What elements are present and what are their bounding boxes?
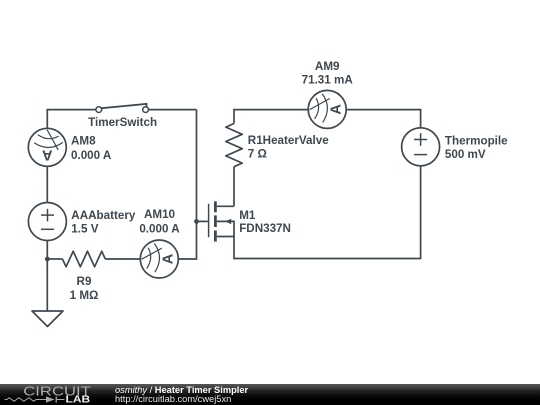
ammeter AM8 bbox=[28, 128, 66, 166]
svg-text:7 Ω: 7 Ω bbox=[248, 148, 267, 161]
wire ground drop below node bbox=[46, 259, 48, 311]
resistor R9 bbox=[63, 251, 106, 267]
svg-text:AM9: AM9 bbox=[315, 60, 340, 73]
wire top-left horizontal from AM8 top corner to switch left terminal bbox=[47, 110, 96, 129]
ground bbox=[32, 311, 63, 327]
resistor R1HeaterValve bbox=[226, 124, 242, 167]
svg-text:AAAbattery: AAAbattery bbox=[71, 209, 136, 222]
wire AM8 bottom to battery top bbox=[46, 166, 48, 202]
gate bar bbox=[208, 204, 210, 237]
transistor M1 FDN337N bbox=[209, 201, 234, 241]
svg-text:0.000 A: 0.000 A bbox=[139, 223, 180, 236]
svg-text:TimerSwitch: TimerSwitch bbox=[88, 116, 157, 129]
voltage source Thermopile bbox=[402, 128, 440, 166]
wire node to R9 left bbox=[47, 258, 62, 260]
wire R1 top to AM9 left bbox=[234, 110, 308, 124]
channel bar drain-side bbox=[214, 201, 217, 212]
svg-text:71.31 mA: 71.31 mA bbox=[302, 73, 354, 86]
wire vertical gate net down to AM10 output corner bbox=[178, 110, 196, 259]
body line with source tie bbox=[217, 221, 234, 236]
voltage source AAAbattery bbox=[28, 203, 66, 241]
CircuitLab logo bbox=[0, 384, 110, 405]
svg-text:R1HeaterValve: R1HeaterValve bbox=[248, 134, 329, 147]
svg-text:A: A bbox=[161, 253, 177, 264]
svg-text:M1: M1 bbox=[239, 209, 256, 222]
channel bar body bbox=[214, 215, 217, 227]
footer text bbox=[115, 386, 248, 405]
switch TimerSwitch bbox=[96, 104, 149, 113]
svg-text:LAB: LAB bbox=[66, 394, 91, 405]
wire from switch right terminal to top-right corner of gate net bbox=[149, 109, 197, 111]
ammeter AM9 bbox=[308, 90, 346, 128]
wire Thermopile bottom down and along bottom to MOSFET source bbox=[234, 166, 421, 259]
wire AM9 right to Thermopile top bbox=[346, 110, 420, 128]
body arrow bbox=[225, 219, 231, 224]
svg-text:1 MΩ: 1 MΩ bbox=[70, 289, 99, 302]
ammeter AM10 bbox=[140, 240, 178, 278]
wire R9 right to AM10 left bbox=[105, 258, 140, 260]
wire battery bottom to ground node bbox=[46, 241, 48, 260]
channel bar source-side bbox=[214, 231, 217, 242]
drain stub bbox=[217, 205, 234, 207]
svg-text:A: A bbox=[42, 147, 53, 163]
svg-text:500 mV: 500 mV bbox=[445, 148, 486, 161]
svg-text:AM10: AM10 bbox=[144, 208, 175, 221]
svg-text:1.5 V: 1.5 V bbox=[71, 222, 98, 235]
footer bar bbox=[0, 384, 540, 405]
source stub bbox=[217, 236, 234, 238]
svg-text:FDN337N: FDN337N bbox=[239, 222, 291, 235]
svg-text:AM8: AM8 bbox=[71, 135, 96, 148]
wire gate stub from junction to MOSFET gate bbox=[197, 220, 208, 222]
svg-text:A: A bbox=[329, 104, 345, 115]
svg-text:Thermopile: Thermopile bbox=[445, 135, 508, 148]
svg-text:R9: R9 bbox=[77, 275, 92, 288]
junction gate node bbox=[194, 219, 199, 224]
junction node below battery bbox=[45, 257, 50, 262]
wire drain up to R1 bbox=[233, 167, 235, 207]
svg-text:0.000 A: 0.000 A bbox=[71, 149, 112, 162]
